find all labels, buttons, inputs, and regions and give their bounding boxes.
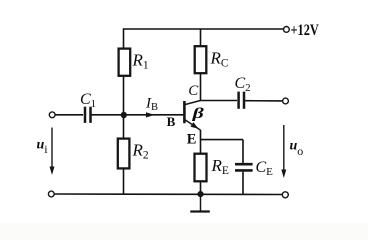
wire bottom ground rail bbox=[54, 193, 282, 196]
terminal input bottom bbox=[48, 191, 54, 197]
wire R2 bottom to ground rail bbox=[123, 168, 125, 194]
wire emitter vertical to RE bbox=[200, 130, 202, 154]
current IB arrowhead bbox=[146, 112, 155, 117]
resistor RE bbox=[195, 154, 207, 182]
svg-text:C: C bbox=[188, 83, 199, 99]
terminal input top bbox=[49, 112, 55, 118]
wire top power rail bbox=[124, 28, 284, 30]
capacitor C1 bbox=[85, 107, 91, 123]
ground bbox=[190, 194, 210, 212]
wire C1 to base bbox=[91, 114, 183, 116]
node base junction dot bbox=[121, 112, 127, 118]
transistor Q1 emitter stroke bbox=[185, 120, 201, 131]
arrow ui bbox=[50, 128, 55, 176]
svg-text:β: β bbox=[191, 105, 204, 121]
capacitor C2 bbox=[239, 92, 244, 109]
wire R1 to base junction to R2 bbox=[123, 76, 125, 139]
transistor Q1 base bar bbox=[183, 101, 186, 123]
svg-text:E: E bbox=[187, 132, 197, 148]
resistor RC bbox=[195, 46, 207, 73]
node ground junction dot bbox=[197, 191, 203, 197]
wire RE bottom to ground rail bbox=[200, 181, 202, 194]
terminal output bottom bbox=[282, 192, 288, 198]
wire Rc bottom to collector node bbox=[200, 73, 202, 100]
terminal +12V bbox=[284, 27, 290, 33]
transistor Q1 collector stroke bbox=[185, 100, 201, 104]
wire input to C1 bbox=[55, 114, 83, 116]
resistor R2 bbox=[118, 139, 130, 169]
wire CE bottom plate to ground rail bbox=[242, 172, 244, 194]
wire collector node to C2 bbox=[201, 100, 238, 102]
wire CE branch down to CE top plate bbox=[242, 140, 244, 163]
capacitor CE bbox=[235, 164, 253, 170]
terminal output top bbox=[283, 98, 289, 104]
wire emitter to CE branch bbox=[201, 139, 244, 141]
svg-text:B: B bbox=[167, 114, 176, 129]
transistor Q1 emitter arrowhead bbox=[191, 122, 199, 129]
svg-text:+12V: +12V bbox=[291, 22, 320, 39]
wire Rc rail upper bbox=[200, 29, 202, 46]
wire R1 rail upper bbox=[123, 28, 125, 48]
wire C2 to output terminal bbox=[245, 100, 282, 102]
resistor R1 bbox=[119, 49, 131, 76]
arrow uo bbox=[281, 125, 286, 178]
